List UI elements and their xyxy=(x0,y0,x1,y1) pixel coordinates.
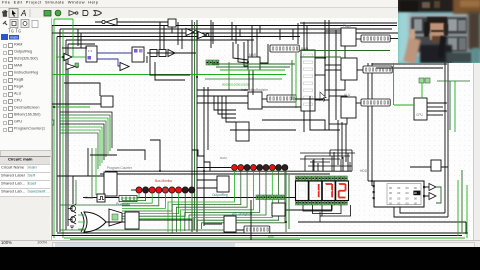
wire pc top link2 xyxy=(90,154,117,156)
wire rom to column 2 xyxy=(394,207,448,217)
LED pair cpu xyxy=(419,78,430,83)
wire green right bottom 2 xyxy=(461,170,463,232)
wire tl horiz 1 xyxy=(68,43,95,45)
wire regb to display xyxy=(357,69,363,71)
svg-text:loop: loop xyxy=(268,235,274,239)
label InstructionRegister xyxy=(241,88,269,92)
buffer gate rom A xyxy=(429,184,436,191)
ground GND1 xyxy=(70,226,74,229)
wire mid column 2 xyxy=(196,20,198,232)
wire green cpu top xyxy=(421,83,423,98)
svg-text:Flags: Flags xyxy=(343,24,351,28)
XOR gate G2 xyxy=(81,212,106,232)
wire reg out xyxy=(139,219,192,221)
wire green mid h1 xyxy=(212,63,295,65)
svg-text:MAR: MAR xyxy=(249,53,257,57)
wire clock run turn xyxy=(285,198,332,211)
wire v298 xyxy=(297,23,299,44)
pin strip 7seg bottom xyxy=(296,201,348,206)
RAM inner marks xyxy=(304,54,313,106)
pin strip ascii top xyxy=(256,195,284,200)
wire blue r1 to r2 xyxy=(97,52,132,54)
wire tl vert 2 xyxy=(80,33,82,48)
wire top run 5 xyxy=(57,36,300,38)
wire ir in 1 xyxy=(197,95,248,97)
buffer B1 xyxy=(64,54,72,61)
wire mid vert a2 xyxy=(248,70,250,90)
wire blue r1 lower xyxy=(97,59,128,66)
wire mar comb 3 xyxy=(244,42,248,66)
wire green right drop 2 xyxy=(454,81,456,132)
buffer gate B2 xyxy=(186,29,197,36)
gate G1 xyxy=(66,64,78,70)
bit display Flags xyxy=(361,35,390,42)
wire mid right link xyxy=(310,96,340,130)
wire ir to display xyxy=(262,98,267,100)
label RAM xyxy=(301,47,309,51)
wire mid column 1 xyxy=(191,20,193,232)
wire under cam 2 xyxy=(376,67,443,69)
wire left column 1 xyxy=(51,26,53,237)
wire tl vert 1 xyxy=(77,29,79,46)
svg-text:00: 00 xyxy=(414,186,418,190)
wire right column 3 xyxy=(335,30,337,120)
svg-text:Bus Monitor: Bus Monitor xyxy=(155,179,173,183)
wire ram out 3 xyxy=(315,99,329,101)
wire ascii to display xyxy=(236,229,244,231)
register U6 xyxy=(125,212,139,229)
wire loop rectangle B xyxy=(325,70,345,90)
wire green mid h2 xyxy=(216,66,290,68)
NOT gate top xyxy=(102,19,117,26)
wire top run 3 xyxy=(60,28,392,30)
wire or inputs xyxy=(78,215,86,229)
component U2 xyxy=(101,96,113,107)
wire mid staircase xyxy=(192,150,210,171)
wire v164 xyxy=(163,26,165,50)
wire pc feed xyxy=(57,175,105,177)
svg-text:00: 00 xyxy=(406,191,410,195)
wire bottom right run xyxy=(298,221,466,223)
wire top stair 1 xyxy=(239,29,241,37)
wire green bottom run 3 xyxy=(60,229,250,231)
wire mid link 3 xyxy=(230,129,296,131)
wire bundle u2 xyxy=(60,118,108,154)
wire v293 xyxy=(292,29,294,40)
register R1 xyxy=(86,46,97,62)
wire ram out 1 xyxy=(315,57,325,59)
wire top right run xyxy=(300,22,397,24)
buffer gate B5 xyxy=(120,63,129,71)
wire top mid vert 1 xyxy=(210,20,212,48)
svg-text:0000101000010100: 0000101000010100 xyxy=(222,83,249,87)
wire left box link xyxy=(64,83,100,96)
wire green ram left 2 xyxy=(291,60,293,100)
wire green right h81 xyxy=(437,80,470,82)
wire led row1 feed xyxy=(131,189,136,191)
wire green bottom run xyxy=(64,237,465,239)
wire green right bright xyxy=(466,185,468,238)
wire bottom right drop xyxy=(465,222,467,234)
wire 7seg harness xyxy=(300,150,355,171)
wire tl horiz 2 xyxy=(62,47,87,49)
wire top run 2 xyxy=(52,25,397,27)
wire bundle u0 xyxy=(60,112,112,148)
wire mar comb 1 xyxy=(233,42,248,60)
wire ir stair 0 xyxy=(214,96,236,110)
CPU U5 xyxy=(414,98,427,120)
wire green bus to MAR xyxy=(52,74,286,76)
label MAR xyxy=(249,53,257,57)
multiplexer MUX1 xyxy=(109,209,122,226)
ROM module xyxy=(374,181,424,207)
wire mid vert b2 xyxy=(252,70,254,95)
RAM module xyxy=(301,50,315,111)
wire green cpu in xyxy=(394,104,414,106)
register OutputReg xyxy=(217,176,229,192)
svg-text:00: 00 xyxy=(406,196,410,200)
register R2 xyxy=(132,47,144,62)
wire ir to ram link xyxy=(262,106,301,108)
wire bundle top xyxy=(52,103,101,105)
bit display ASCII xyxy=(244,226,270,233)
probe P1 xyxy=(168,19,176,27)
wire ir top feed xyxy=(197,89,248,91)
wire rom out a xyxy=(424,186,429,188)
wire col x304b xyxy=(303,111,305,132)
svg-text:00: 00 xyxy=(397,202,401,206)
wire top run 6 xyxy=(66,39,254,41)
wire ir stair 1 xyxy=(218,96,236,114)
wire green bus label run xyxy=(205,78,282,80)
register Flags xyxy=(341,28,356,46)
wire rom in xyxy=(368,180,374,182)
wire alu to display xyxy=(356,102,361,104)
register MAR xyxy=(248,57,260,70)
wire cpu out 1 xyxy=(427,102,447,104)
wire col x304 xyxy=(303,22,305,50)
wire right column 2 xyxy=(328,20,330,130)
wire mid green column xyxy=(194,22,196,230)
wire green right drop 1 xyxy=(449,81,451,130)
wire green left column B xyxy=(62,29,64,238)
wire mar comb 2 xyxy=(238,44,248,63)
svg-text:1 0: 1 0 xyxy=(88,49,93,53)
bit display RAM address xyxy=(270,45,299,52)
wire green clock run xyxy=(60,204,130,206)
wire green top loop xyxy=(54,18,73,20)
wire right h167 xyxy=(410,166,448,168)
pin strip 7seg top xyxy=(296,176,348,181)
buffer gate B3 xyxy=(198,32,209,39)
bit display ALU xyxy=(361,99,390,106)
wire col x307 xyxy=(306,26,308,50)
wire far right column 2 xyxy=(447,63,449,217)
svg-text:00: 00 xyxy=(414,196,418,200)
svg-text:ALU: ALU xyxy=(344,93,351,97)
svg-text:00: 00 xyxy=(389,202,393,206)
wire mid vert c xyxy=(256,29,258,57)
mouse cursor xyxy=(320,92,326,101)
LED row bus monitor xyxy=(136,187,195,193)
wire v232 xyxy=(231,22,233,40)
label HDD xyxy=(360,169,368,173)
svg-text:Program Counter: Program Counter xyxy=(107,166,133,170)
wire green led stubs row1 xyxy=(122,193,192,219)
input pin A xyxy=(49,120,54,125)
label green bus value xyxy=(222,83,249,87)
wire green mid vert 1 xyxy=(285,172,287,232)
wire bundle u6 xyxy=(60,130,100,166)
register R1 bits xyxy=(88,49,93,60)
wire left column 2 xyxy=(56,37,58,233)
label OutputReg xyxy=(212,193,228,197)
svg-text:00: 00 xyxy=(389,191,393,195)
wire probe drop xyxy=(171,27,173,33)
wire feeder 1 xyxy=(337,120,339,156)
wire bundle u1 xyxy=(60,115,110,151)
wire clock drop 2 xyxy=(75,180,77,204)
wire descent 3 xyxy=(95,148,97,195)
wire or to reg xyxy=(106,221,125,223)
label PCounter xyxy=(116,202,131,206)
label ASCIIRegister xyxy=(232,212,254,216)
wire bundle u4 xyxy=(60,124,104,160)
wire top run 4 xyxy=(52,32,446,34)
label loop xyxy=(268,235,274,239)
wire descent 2 xyxy=(91,148,93,197)
wire descent 1 xyxy=(87,148,89,176)
wire rom to column xyxy=(400,207,445,213)
wire bundle u5 xyxy=(60,127,102,163)
wire flags disp out xyxy=(390,38,398,40)
transistor Q2 xyxy=(68,215,76,224)
wire 7seg bottom harness xyxy=(303,205,351,222)
ALU U4 xyxy=(341,97,356,118)
LED row output xyxy=(232,165,288,171)
wire long run mid xyxy=(105,170,352,172)
register PC xyxy=(104,172,117,196)
register RegB xyxy=(341,58,357,80)
7-segment display digit 0 xyxy=(296,181,309,201)
wire top stair 2 xyxy=(259,26,261,34)
label Program Counter xyxy=(107,166,133,170)
wire green cam drop xyxy=(393,63,395,105)
wire big L 1 xyxy=(150,57,190,75)
wire pc top link xyxy=(117,150,145,160)
wire left column 3 xyxy=(59,29,61,232)
clock CLK1 xyxy=(97,194,105,202)
wire green right run 2 xyxy=(300,56,341,58)
wire cpu out 2 xyxy=(427,106,443,108)
svg-text:00: 00 xyxy=(406,186,410,190)
svg-text:ASCIIRegister: ASCIIRegister xyxy=(232,212,254,216)
wire green right bottom 1 xyxy=(457,180,459,236)
register R2 bits xyxy=(134,49,143,53)
wire mid drop xyxy=(150,140,160,171)
wire green v229 xyxy=(228,62,230,90)
wire green mid h3 xyxy=(220,69,285,71)
wire big L 2 xyxy=(155,62,185,80)
wire long run mid 2 xyxy=(100,173,330,175)
pin strip MAR input xyxy=(206,60,219,65)
7-segment display digit 2 xyxy=(322,181,335,201)
wire webcam column 1 xyxy=(367,63,369,181)
svg-text:A: A xyxy=(20,9,26,18)
wire left column 4 xyxy=(65,40,67,230)
wire cpu out 4 xyxy=(427,114,443,116)
wire ir in 2 xyxy=(197,102,248,104)
svg-text:00: 00 xyxy=(389,186,393,190)
wire green bottom run 2 xyxy=(70,239,300,241)
wire top run 1 xyxy=(95,21,170,23)
wire green led fan row2 xyxy=(168,171,285,234)
svg-text:00: 00 xyxy=(406,202,410,206)
label RAM small xyxy=(220,156,227,160)
svg-text:OutputReg: OutputReg xyxy=(212,193,228,197)
wire right column 1 xyxy=(324,20,326,96)
wire top stair 3 xyxy=(279,29,281,40)
wire bottom run 1 xyxy=(57,232,468,234)
wire green loop drop xyxy=(72,19,74,57)
register ASCII xyxy=(224,216,236,232)
wire rom out b xyxy=(424,195,429,197)
wire mid column 4 xyxy=(207,87,209,150)
component U8 xyxy=(431,160,441,171)
wire bundle u7 xyxy=(60,133,98,169)
wire rom green loop xyxy=(436,187,441,203)
label Clock xyxy=(85,196,94,200)
bit display RegB xyxy=(363,66,392,73)
wire ascii in xyxy=(204,223,222,225)
wire chain out xyxy=(175,52,192,54)
svg-text:00: 00 xyxy=(397,191,401,195)
wire left column 5 xyxy=(67,44,69,226)
wire v160 xyxy=(159,22,161,49)
wire loop rectangle C xyxy=(329,96,347,124)
wire outputreg in2 xyxy=(197,187,217,189)
wire v236 xyxy=(235,26,237,45)
wire bundle u3 xyxy=(60,121,106,157)
svg-text:00: 00 xyxy=(397,186,401,190)
bit display IR output xyxy=(267,95,296,102)
wire ir stair 2 xyxy=(222,96,236,118)
wire v178 xyxy=(177,22,179,45)
svg-text:00: 00 xyxy=(397,196,401,200)
pin green g1 xyxy=(75,63,79,67)
wire clock run xyxy=(83,197,332,199)
wire outputreg in xyxy=(197,179,217,181)
wire ir display out xyxy=(295,98,325,100)
wire mid vert b xyxy=(251,26,253,58)
wire chain run xyxy=(147,52,196,54)
wire green left column A xyxy=(53,19,55,238)
wire feeder 3 xyxy=(345,124,347,162)
buffer gate rom B xyxy=(429,193,436,200)
wire webcam column 2 xyxy=(371,63,373,186)
wire green ram left xyxy=(295,53,297,108)
label CPU xyxy=(416,113,424,117)
bit display PC xyxy=(119,196,137,202)
wire flags to display xyxy=(356,38,361,40)
wire ir stair 3 xyxy=(226,96,236,122)
svg-text:RAM: RAM xyxy=(220,156,227,160)
wire clock drop 1 xyxy=(72,176,74,204)
svg-text:Clock: Clock xyxy=(85,196,94,200)
wire feeder 2 xyxy=(341,122,343,159)
wire top mid vert 2 xyxy=(212,22,214,44)
wire green buffer out xyxy=(72,56,86,58)
buffer gate B4 xyxy=(168,50,175,57)
7-segment display digit 3 xyxy=(336,181,349,201)
wire green bundle top xyxy=(52,106,90,108)
ROM pins xyxy=(373,185,426,199)
wire buffer input xyxy=(56,56,64,58)
gate chain box 1 xyxy=(150,50,157,57)
ROM hex contents xyxy=(389,186,420,206)
wire v251 bottom xyxy=(250,200,252,240)
component U7 xyxy=(272,203,285,216)
wire v182 xyxy=(181,29,183,49)
7-segment display digit 1 xyxy=(309,181,322,201)
wire led row2 feed xyxy=(197,167,231,169)
wire cpu out 3 xyxy=(427,110,447,112)
svg-text:CPU: CPU xyxy=(416,113,424,117)
wire mid vert a xyxy=(247,40,249,57)
svg-text:00: 00 xyxy=(414,202,418,206)
svg-text:00: 00 xyxy=(414,191,418,195)
wire mid link 2 xyxy=(262,120,325,130)
svg-text:HDD: HDD xyxy=(360,169,368,173)
label ALU xyxy=(344,93,351,97)
wire ram out 2 xyxy=(315,74,325,76)
svg-text:00: 00 xyxy=(389,196,393,200)
label Bus Monitor xyxy=(155,179,173,183)
register U3 xyxy=(236,122,249,141)
transistor Q1 xyxy=(68,204,76,213)
wire mid column 3 xyxy=(203,87,205,226)
wire green mid vert 2 xyxy=(288,175,290,229)
gate chain box 2 xyxy=(159,50,166,57)
wire mar out xyxy=(260,44,268,63)
wire under cam 1 xyxy=(372,63,447,65)
wire loop rectangle A xyxy=(325,31,345,65)
wire bottom run 2 xyxy=(52,235,462,237)
wire green right run 1 xyxy=(300,50,390,52)
wire r2 stub xyxy=(146,56,148,63)
label Flags xyxy=(343,24,351,28)
wire far right column 1 xyxy=(444,63,446,213)
register IR xyxy=(248,92,262,109)
